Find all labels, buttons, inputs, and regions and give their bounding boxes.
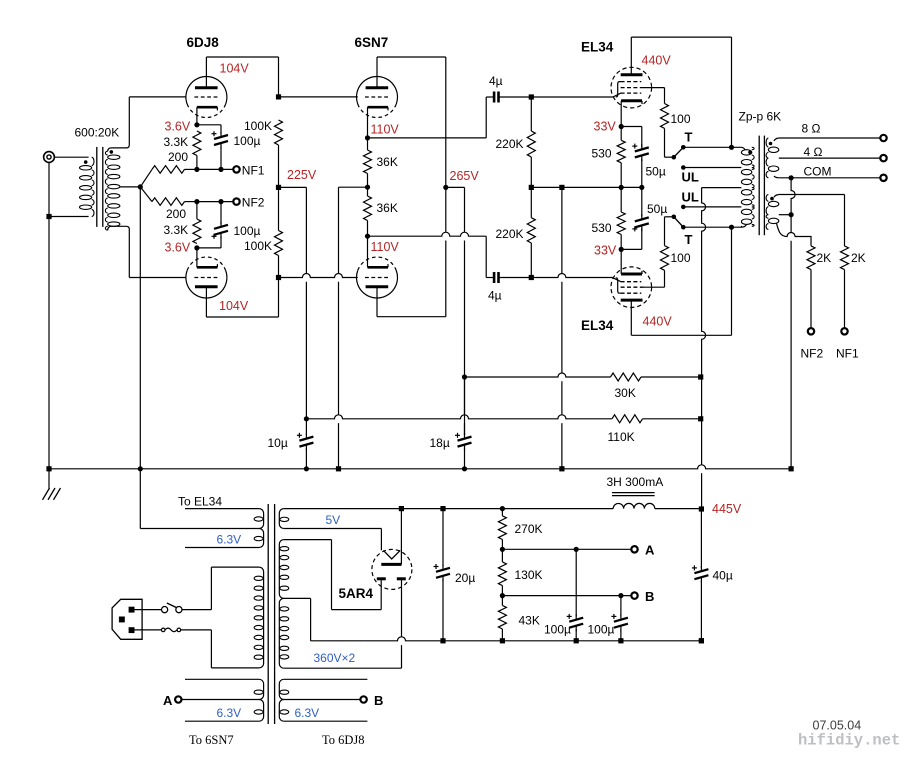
- wire T contact to plate/OPT top: [683, 146, 741, 148]
- resistor 270K divider: [498, 516, 506, 540]
- resistor 30K feedback: [611, 373, 642, 381]
- svg-text:4 Ω: 4 Ω: [804, 145, 823, 159]
- wire down to plate node: [278, 57, 280, 97]
- wire fuse to primary bottom: [181, 629, 212, 631]
- svg-text:360V×2: 360V×2: [314, 651, 356, 665]
- junction NF1 node a: [194, 167, 199, 172]
- junction 20u ground: [440, 638, 445, 643]
- wire lower plate node to 6SN7 lower grid (hops): [279, 274, 358, 278]
- junction PSU bus end: [699, 638, 704, 643]
- svg-text:440V: 440V: [643, 315, 673, 329]
- junction ground bus OPT: [789, 466, 794, 471]
- wire V4 plate bottom wire: [631, 334, 731, 336]
- wire heater CT to ground: [139, 469, 141, 529]
- wire CT diagonal to R-200 lower: [140, 187, 152, 202]
- terminal COM: [880, 175, 886, 181]
- capacitor 10u decoupling: [299, 437, 313, 447]
- wire V1a cathode lead: [196, 107, 198, 125]
- svg-text:130K: 130K: [515, 568, 543, 582]
- junction 100u B ground: [618, 638, 623, 643]
- tube 6DJ8 upper triode V1a: [186, 77, 227, 118]
- svg-text:33V: 33V: [594, 120, 617, 134]
- wire V3 plate top wire: [631, 36, 731, 38]
- svg-text:3H 300mA: 3H 300mA: [607, 475, 664, 489]
- svg-text:UL: UL: [682, 190, 699, 205]
- wire choke to 445V node: [655, 508, 702, 510]
- svg-text:440V: 440V: [642, 54, 672, 68]
- wire V2b cathode lead: [367, 236, 369, 267]
- junction node B: [500, 593, 505, 598]
- svg-text:To EL34: To EL34: [178, 495, 222, 509]
- junction NF2 node b: [218, 199, 223, 204]
- capacitor 50u upper cathode bypass: [635, 147, 649, 157]
- wire V2b plate lead down: [376, 287, 378, 317]
- svg-text:10µ: 10µ: [268, 436, 288, 450]
- wire 3.3K lower to NF2 node: [196, 202, 198, 219]
- svg-text:5V: 5V: [326, 513, 341, 527]
- svg-text:6SN7: 6SN7: [355, 35, 389, 50]
- wire 36K lower to 110V node: [367, 187, 369, 196]
- svg-text:4µ: 4µ: [489, 74, 503, 88]
- wire 270K leads: [501, 509, 503, 516]
- junction B cap node: [618, 593, 623, 598]
- junction 50u upper bus: [639, 185, 644, 190]
- wire 100K to 225V node: [278, 145, 280, 187]
- wire 18u leads: [464, 377, 466, 435]
- phase dot secondary T1: [110, 150, 114, 154]
- svg-text:NF1: NF1: [242, 164, 265, 178]
- svg-text:T: T: [685, 130, 693, 145]
- wire 225V supply line y418.8: [306, 415, 612, 419]
- resistor 110K feedback: [612, 415, 643, 423]
- svg-text:100µ: 100µ: [234, 224, 261, 238]
- junction NF2 node a: [194, 199, 199, 204]
- wire V3 cathode lead: [620, 101, 622, 127]
- power transformer 5V winding: [279, 509, 289, 529]
- wire NF winding top to 2K right: [779, 194, 845, 196]
- wire primary bottom return: [49, 216, 89, 218]
- wire 4ohm tap: [779, 157, 881, 159]
- tube 6SN7 lower triode V2b: [357, 257, 398, 298]
- svg-text:43K: 43K: [519, 614, 540, 628]
- terminal A heater: [175, 696, 181, 702]
- resistor 36K lower: [364, 196, 372, 221]
- wire 100u A leads: [575, 549, 577, 616]
- svg-text:445V: 445V: [712, 502, 742, 516]
- wire shield to ground bus: [48, 217, 50, 469]
- junction COM ground: [789, 175, 794, 180]
- wire cap to NF1 line: [220, 147, 222, 170]
- wire R200 lower to node: [185, 201, 197, 203]
- svg-text:104V: 104V: [220, 62, 250, 76]
- junction ground bus CT: [138, 466, 143, 471]
- resistor 2K left: [807, 246, 815, 270]
- svg-text:530: 530: [592, 147, 612, 161]
- output transformer T2 core: [759, 136, 764, 236]
- wire plate lower riser: [731, 227, 733, 335]
- wire A to winding: [182, 699, 260, 701]
- junction V1a plate node: [276, 94, 281, 99]
- wire 130K leads: [501, 549, 503, 562]
- resistor 100 lower screen: [661, 246, 669, 271]
- wire 225V drop down: [305, 187, 307, 418]
- wire NF winding CT: [779, 214, 791, 216]
- wire 100 to switch pole: [664, 128, 666, 157]
- junction V1a cathode node 3.6V: [194, 122, 199, 127]
- svg-text:100K: 100K: [244, 239, 272, 253]
- resistor 2K right: [841, 246, 849, 270]
- wire HT top to rectifier plate: [284, 539, 332, 541]
- svg-text:20µ: 20µ: [455, 571, 475, 585]
- input transformer T1 600:20K primary winding: [80, 157, 95, 216]
- svg-text:33V: 33V: [594, 244, 617, 258]
- wire 50u to bus: [641, 159, 643, 188]
- wire 30K to B+ riser: [641, 376, 701, 378]
- capacitor 18u decoupling: [458, 437, 472, 447]
- svg-text:4µ: 4µ: [488, 289, 502, 303]
- wire 33V lower right: [621, 248, 642, 250]
- junction EL34 lower grid node: [529, 275, 534, 280]
- capacitor 100u lower cathode bypass: [214, 225, 228, 235]
- wire UL upper to tap: [683, 167, 741, 169]
- junction 265V feed node: [462, 374, 467, 379]
- resistor 200 (lower NF2): [152, 198, 185, 206]
- wire 50u lower to bus: [641, 187, 643, 216]
- svg-text:2K: 2K: [851, 251, 866, 265]
- svg-text:104V: 104V: [219, 299, 249, 313]
- wire 4u lower left lead: [486, 277, 493, 279]
- wire 4u right lead: [499, 96, 531, 98]
- svg-text:100µ: 100µ: [544, 623, 571, 637]
- wire V1a plate lead up: [205, 57, 207, 88]
- wire 20u leads: [442, 509, 444, 567]
- junction ground bus left end: [46, 466, 51, 471]
- wire node B to terminal: [502, 595, 631, 597]
- svg-text:EL34: EL34: [581, 40, 614, 55]
- wire 110K to B+ riser: [643, 418, 701, 420]
- tube EL34 lower V4: [611, 267, 652, 308]
- terminal 8 ohm: [880, 135, 886, 141]
- junction 100u A ground: [574, 638, 579, 643]
- wire 265V branch right: [446, 186, 465, 188]
- choke 3H 300mA: [612, 493, 655, 509]
- resistor 3.3K upper cathode: [193, 131, 201, 156]
- svg-text:100µ: 100µ: [234, 134, 261, 148]
- svg-text:A: A: [645, 543, 655, 558]
- wire 40u leads: [700, 509, 702, 568]
- junction NF winding CT: [789, 212, 794, 217]
- capacitor 100u B: [614, 618, 628, 628]
- junction 225V node: [276, 185, 281, 190]
- wire plug live to switch: [135, 609, 162, 611]
- junction OPT bottom / plate lower: [729, 225, 734, 230]
- contact UL lower: [681, 205, 686, 210]
- svg-text:COM: COM: [804, 165, 832, 179]
- wire 100K lower to plate node: [278, 187, 280, 230]
- resistor 130K divider: [498, 562, 506, 586]
- svg-text:B: B: [374, 693, 383, 708]
- svg-text:6.3V: 6.3V: [217, 533, 242, 547]
- wire midpoint left: [339, 186, 368, 188]
- wire 110V lower to cap (hops): [368, 232, 487, 236]
- switch S2 lower T/UL: [672, 215, 686, 230]
- wire switch to primary top: [182, 609, 211, 611]
- wire 33V node right: [621, 126, 642, 128]
- wire secondary center tap: [120, 186, 140, 188]
- wire plug neutral to fuse: [135, 629, 162, 631]
- svg-text:6DJ8: 6DJ8: [187, 35, 220, 50]
- wire OPT CT riser down to B+: [702, 188, 706, 509]
- svg-text:270K: 270K: [515, 522, 543, 536]
- wire UL lower to tap: [683, 206, 741, 208]
- phase dot OPT secondary 1: [769, 142, 773, 146]
- svg-text:225V: 225V: [287, 168, 317, 182]
- wire filament B+ lead: [400, 509, 402, 565]
- svg-text:3.3K: 3.3K: [164, 135, 189, 149]
- wire 265V supply line y377: [465, 373, 611, 377]
- wire V4 cathode lead: [620, 249, 622, 274]
- wire lower screen exit: [664, 270, 666, 287]
- output transformer T2 secondary winding 2 (NF): [766, 195, 779, 230]
- svg-text:NF2: NF2: [801, 347, 824, 361]
- contact UL upper: [681, 165, 686, 170]
- terminal NF1 bottom: [841, 328, 847, 334]
- svg-text:2K: 2K: [817, 251, 832, 265]
- svg-text:A: A: [163, 693, 173, 708]
- wire 18u drop: [464, 377, 466, 435]
- junction bus ground drop: [559, 185, 564, 190]
- wire node A to terminal: [502, 548, 631, 550]
- wire cap lower to NF2 line: [220, 202, 222, 224]
- capacitor 40u filter: [694, 569, 708, 579]
- resistor 530 upper cathode: [617, 140, 625, 163]
- junction EL34 upper grid node: [529, 94, 534, 99]
- wire secondary bottom to 6DJ8 lower grid: [129, 277, 186, 279]
- wire jack shield down: [48, 162, 50, 216]
- wire 530 lower leads: [620, 187, 622, 212]
- svg-text:200: 200: [166, 207, 186, 221]
- wire R200 upper to node: [185, 168, 197, 170]
- input jack J1: [44, 152, 55, 163]
- tube EL34 upper V3: [611, 67, 652, 108]
- wire 3.3K to NF1 node: [196, 156, 198, 170]
- resistor 100K upper plate: [275, 120, 283, 145]
- wire 36K junction: [367, 138, 369, 150]
- junction 36K midpoint: [365, 185, 370, 190]
- svg-text:6.3V: 6.3V: [295, 706, 320, 720]
- resistor 100K lower plate: [275, 231, 283, 256]
- svg-text:3.6V: 3.6V: [165, 241, 191, 255]
- svg-text:To 6DJ8: To 6DJ8: [322, 733, 365, 747]
- svg-text:220K: 220K: [496, 227, 524, 241]
- junction NF1 node b: [218, 167, 223, 172]
- terminal A bias: [631, 546, 637, 552]
- power transformer core: [268, 504, 274, 724]
- terminal NF2 bottom: [808, 328, 814, 334]
- svg-text:40µ: 40µ: [713, 569, 733, 583]
- capacitor 100u A: [569, 618, 583, 628]
- wire 8ohm lead: [779, 137, 881, 139]
- output transformer T2 secondary winding 1: [766, 138, 779, 178]
- wire ground drop x562: [561, 187, 563, 468]
- wire cathode node right to cap: [197, 247, 221, 249]
- wire NF winding bottom to 2K left: [777, 223, 812, 246]
- junction 18u ground: [462, 466, 467, 471]
- junction jack shield / primary return: [46, 214, 51, 219]
- mains plug: [112, 599, 142, 639]
- svg-text:36K: 36K: [377, 155, 398, 169]
- wire V2a plate lead up: [376, 57, 378, 88]
- switch S1 upper T/UL: [672, 145, 686, 160]
- ground bus: [49, 465, 791, 469]
- wire 2K left to NF2: [810, 270, 812, 329]
- wire 10u leads: [305, 419, 307, 435]
- power transformer mains primary winding: [254, 567, 264, 668]
- svg-text:50µ: 50µ: [647, 202, 667, 216]
- wire V1a plate top to 100K node: [206, 56, 278, 58]
- junction 10u node: [304, 416, 309, 421]
- svg-text:Zp-p 6K: Zp-p 6K: [739, 110, 782, 124]
- terminal 4 ohm: [880, 155, 886, 161]
- junction 265V node: [443, 185, 448, 190]
- junction 445V node: [699, 506, 704, 511]
- resistor 43K divider: [498, 605, 506, 629]
- capacitor 4u lower coupling: [494, 272, 498, 283]
- phase dot OPT secondary 2: [770, 197, 774, 201]
- junction V1b plate node: [276, 275, 281, 280]
- phase dot OPT primary: [748, 151, 752, 155]
- junction 110V upper node: [365, 135, 370, 140]
- capacitor 20u filter: [436, 568, 450, 578]
- wire plate drop to T junction: [731, 37, 733, 147]
- wire 43K leads: [501, 596, 503, 606]
- svg-text:220K: 220K: [496, 137, 524, 151]
- phase dot primary T1: [84, 160, 88, 164]
- wire 100u B leads: [620, 596, 622, 617]
- svg-text:hifidiy.net: hifidiy.net: [798, 732, 900, 750]
- wire 6SN7 plate bus down: [445, 57, 447, 317]
- svg-text:EL34: EL34: [581, 318, 614, 333]
- power transformer 6.3V winding To 6SN7: [185, 679, 264, 721]
- terminal NF2: [233, 198, 239, 204]
- junction 40u ground: [699, 638, 704, 643]
- wire midpoint ground drop: [338, 187, 340, 469]
- output transformer T2 primary winding: [741, 147, 754, 227]
- junction 530 upper bus: [619, 185, 624, 190]
- wire OPT center tap: [702, 187, 742, 189]
- resistor 200 (upper NF1): [152, 166, 185, 174]
- junction 10u ground: [304, 466, 309, 471]
- resistor 220K lower grid: [527, 218, 535, 243]
- capacitor 100u upper cathode bypass: [214, 135, 228, 145]
- wire up to 4u cap: [485, 97, 487, 138]
- junction OPT top / plate: [729, 145, 734, 150]
- wire secondary top to 6DJ8 upper grid: [108, 97, 130, 151]
- resistor 100 upper screen: [661, 104, 669, 129]
- wire 225V node right: [279, 186, 307, 188]
- svg-text:600:20K: 600:20K: [75, 125, 120, 139]
- svg-text:110K: 110K: [608, 430, 635, 444]
- terminal NF1: [233, 166, 239, 172]
- svg-text:6.3V: 6.3V: [217, 706, 242, 720]
- tube 6DJ8 lower triode V1b: [186, 257, 227, 298]
- junction V1b cathode node 3.6V: [194, 245, 199, 250]
- wire 5V top lead / B+ start: [284, 508, 402, 510]
- junction 43K ground: [500, 638, 505, 643]
- mains switch: [162, 603, 182, 613]
- svg-text:NF2: NF2: [242, 196, 265, 210]
- svg-text:UL: UL: [682, 170, 699, 185]
- junction 110V lower node: [365, 234, 370, 239]
- wire V1b plate lead down: [205, 287, 207, 317]
- wire 220K lower leads: [530, 187, 532, 217]
- junction ground bus x562: [559, 466, 564, 471]
- wire cathode node to bypass cap: [197, 124, 221, 126]
- resistor 220K upper grid: [527, 131, 535, 157]
- wire V2a cathode lead: [367, 107, 369, 138]
- junction node A: [500, 547, 505, 552]
- junction 220K upper to bus: [529, 185, 534, 190]
- wire HT center tap to PSU ground bus: [284, 597, 311, 599]
- mains fuse: [161, 628, 180, 632]
- junction 110K B+ riser: [698, 416, 703, 421]
- junction 30K B+ riser: [698, 374, 703, 379]
- wire 110V to coupling cap (hop): [368, 137, 487, 139]
- wire jack to input transformer primary: [54, 156, 88, 158]
- wire 530 leads: [620, 127, 622, 141]
- junction 20u node: [440, 506, 445, 511]
- wire to NF1 terminal: [197, 168, 234, 170]
- wire secondary bottom lead: [108, 226, 130, 277]
- svg-text:530: 530: [592, 221, 612, 235]
- tube 6SN7 upper triode V2a: [357, 77, 398, 118]
- wire 265V drop down: [464, 187, 466, 377]
- resistor 530 lower cathode: [617, 212, 625, 235]
- wire V1b cathode lead: [196, 248, 198, 267]
- wire plate node to 6SN7 upper grid: [279, 96, 358, 98]
- wire CT diagonal to R-200 upper: [140, 169, 152, 187]
- svg-text:110V: 110V: [371, 240, 400, 254]
- wire 4u lower right lead: [499, 277, 531, 279]
- svg-text:8 Ω: 8 Ω: [802, 122, 821, 136]
- input transformer T1 secondary winding 20K: [105, 151, 120, 230]
- input transformer T1 core: [97, 147, 103, 227]
- junction divider node: [500, 506, 505, 511]
- wire COM ground riser: [791, 178, 795, 469]
- junction 33V lower node: [619, 247, 624, 252]
- wire grid node to EL34 upper: [531, 96, 613, 98]
- wire grid node to EL34 lower (hop): [531, 274, 613, 278]
- wire 5V bottom to filament: [380, 529, 382, 551]
- tube 5AR4 rectifier V5: [372, 549, 412, 589]
- terminal B bias: [631, 592, 637, 598]
- junction B+ takeoff: [399, 506, 404, 511]
- wire center tap to ground bus: [139, 187, 141, 469]
- wire 220K upper leads: [530, 97, 532, 131]
- svg-text:100µ: 100µ: [588, 623, 615, 637]
- wire to NF2 terminal: [197, 201, 234, 203]
- wire COM lead: [779, 177, 881, 179]
- resistor 3.3K lower cathode: [193, 219, 201, 244]
- power transformer heater winding 6.3V EL34: [185, 509, 264, 548]
- svg-text:200: 200: [168, 150, 188, 164]
- svg-text:07.05.04: 07.05.04: [813, 719, 862, 733]
- wire 4u left lead: [486, 96, 493, 98]
- wire up to lower plate node: [278, 278, 280, 318]
- svg-text:30K: 30K: [615, 386, 636, 400]
- junction 33V upper node: [619, 124, 624, 129]
- wire V4 plate lead down: [630, 300, 632, 335]
